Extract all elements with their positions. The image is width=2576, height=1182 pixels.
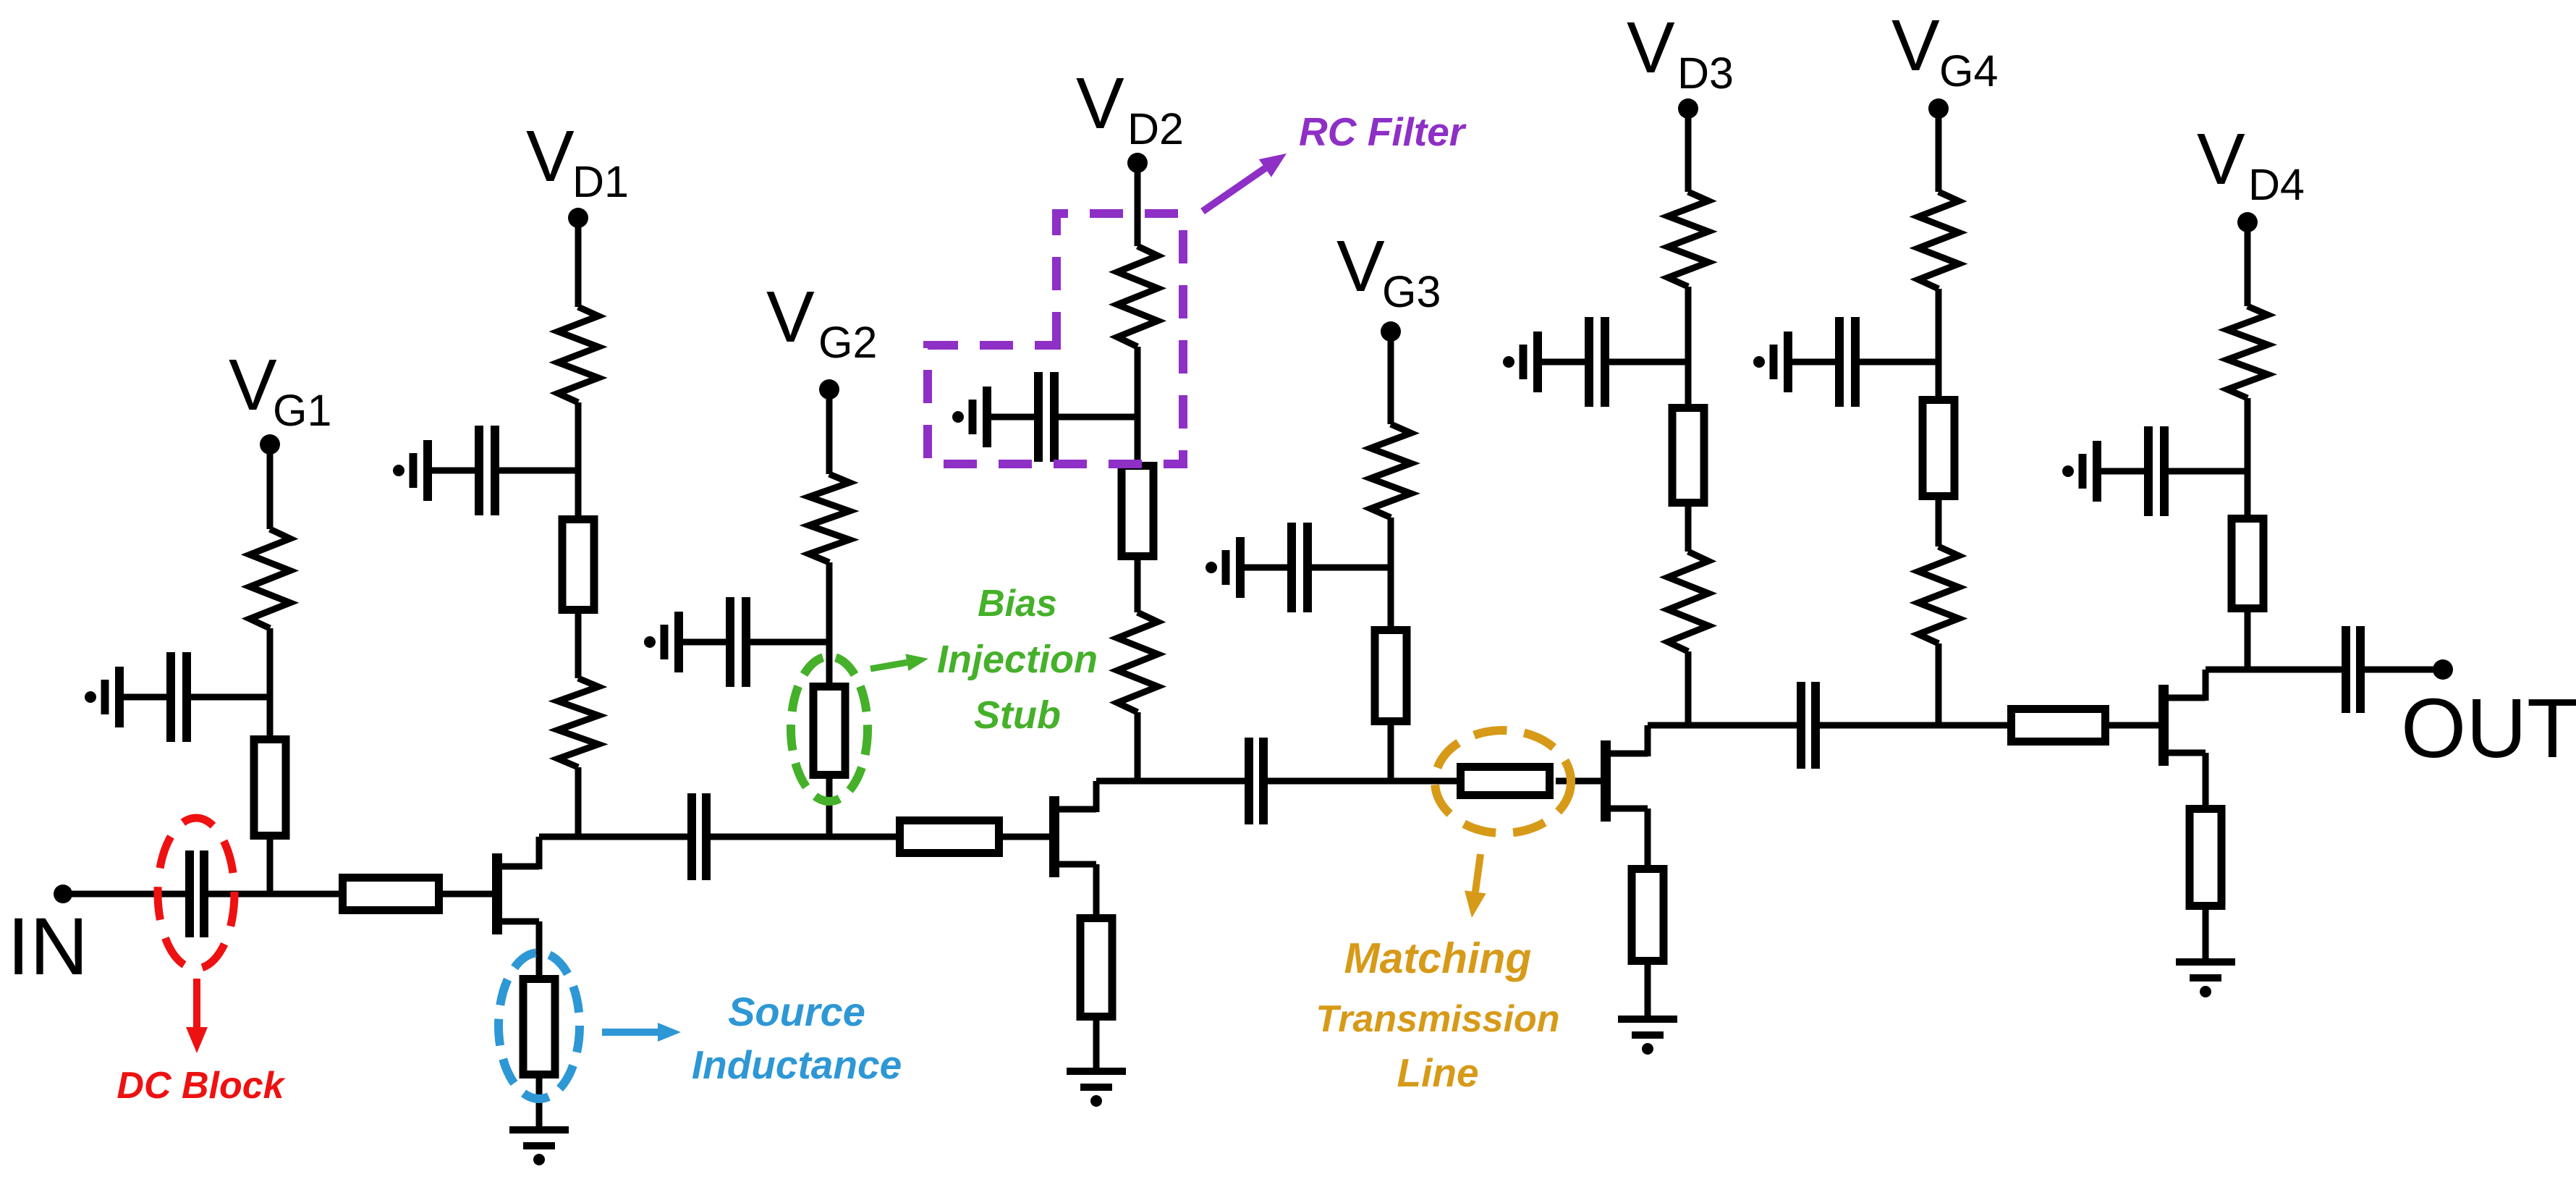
- stub TL VG4: [1923, 400, 1954, 497]
- resistor R1 VG1: [250, 529, 290, 628]
- wire stub to R7: [1135, 560, 1141, 612]
- svg-text:DC Block: DC Block: [116, 1065, 286, 1107]
- annotation purple dashed RC filter box: [928, 214, 1183, 464]
- svg-text:G3: G3: [1382, 267, 1441, 316]
- wire Q1 source down: [536, 921, 543, 975]
- capacitor C1 DC block: [190, 850, 204, 937]
- wire R8 to C8 junction: [1388, 518, 1394, 567]
- wire Q3 source down: [1645, 809, 1651, 865]
- wire stub to ground Q1: [536, 1078, 543, 1130]
- annotation red dashed ellipse DC block: [158, 818, 234, 968]
- wire stub to ground Q3: [1645, 965, 1651, 1019]
- annotation blue arrow: [602, 1023, 681, 1042]
- svg-text:Stub: Stub: [974, 693, 1061, 737]
- wire stub to R12: [1936, 500, 1942, 546]
- ground Q2 source: [1067, 1071, 1126, 1107]
- transistor Q3: [1606, 725, 1648, 822]
- transmission line TL3 matching: [1461, 767, 1550, 795]
- inductor source stub Q3: [1632, 869, 1664, 961]
- svg-text:OUT: OUT: [2401, 681, 2576, 775]
- capacitor C9 to ground VD3: [1503, 317, 1688, 407]
- svg-text:Bias: Bias: [978, 583, 1057, 625]
- wire Q2 source down: [1093, 864, 1100, 914]
- resistor R9 VD3 upper: [1668, 192, 1708, 287]
- wire R11 to C11 junction: [1936, 289, 1942, 362]
- node VG3 terminal: [1381, 321, 1401, 342]
- inductor source stub Q4: [2190, 809, 2221, 906]
- resistor R10 VD3 lower: [1668, 552, 1708, 651]
- svg-text:Transmission: Transmission: [1315, 998, 1559, 1040]
- annotation blue dashed ellipse source inductance: [499, 953, 580, 1099]
- capacitor C8 to ground VG3: [1206, 523, 1391, 612]
- wire node A to TL1: [270, 891, 339, 898]
- wire R12 to bus: [1936, 643, 1942, 725]
- wire C7 to VG3 node: [1263, 778, 1391, 785]
- wire VG4 dot to R11: [1936, 109, 1942, 192]
- ground Q4 source: [2176, 962, 2235, 997]
- transistor Q2: [1054, 781, 1096, 877]
- wire VD1 dot to R3: [575, 218, 582, 307]
- wire stub to ground Q4: [2203, 910, 2209, 962]
- stub TL VD1: [562, 520, 594, 610]
- wire Q2 drain bus: [1096, 778, 1249, 785]
- inductor source stub Q1: [523, 979, 555, 1075]
- wire C3 junction to stub: [575, 470, 582, 515]
- node OUT terminal: [2433, 659, 2453, 680]
- svg-text:Source: Source: [728, 989, 865, 1034]
- resistor R8 VG3: [1370, 424, 1411, 518]
- wire C8 junction to stub: [1388, 567, 1394, 626]
- wire stub to R4: [575, 614, 582, 678]
- wire R4 to drain bus: [575, 767, 582, 837]
- inductor source stub Q2: [1080, 919, 1112, 1017]
- node VD4 terminal: [2237, 212, 2258, 232]
- stub TL VG1: [254, 740, 286, 836]
- wire C11 junction to stub: [1936, 362, 1942, 396]
- svg-text:V: V: [1336, 226, 1385, 307]
- wire C2 junction to stub: [267, 697, 274, 735]
- svg-text:V: V: [1076, 63, 1124, 144]
- annotation purple arrow: [1203, 153, 1287, 211]
- annotation red arrow: [186, 979, 208, 1053]
- wire C10 to VG4 node: [1816, 722, 1939, 729]
- transmission line TL4: [2012, 709, 2106, 742]
- wire stub to R10: [1685, 507, 1692, 552]
- svg-text:G1: G1: [273, 386, 331, 435]
- capacitor C6 to ground VD2: [952, 372, 1137, 462]
- wire stub to bus: [1388, 725, 1394, 781]
- capacitor C5 to ground VG2: [644, 597, 829, 687]
- wire R10 to drain bus: [1685, 651, 1692, 725]
- wire stub to node A: [267, 840, 274, 894]
- wire TL1 to Q1 gate: [443, 891, 493, 898]
- wire stub to bus: [2245, 612, 2251, 670]
- wire IN to DC block: [63, 891, 190, 898]
- capacitor C12 to ground VD4: [2062, 426, 2247, 516]
- svg-text:RC Filter: RC Filter: [1299, 109, 1467, 154]
- wire R9 to C9 junction: [1685, 287, 1692, 362]
- wire Q4 drain bus: [2206, 667, 2346, 673]
- stub TL VD3: [1672, 408, 1704, 503]
- wire VG2 dot to R5: [826, 389, 833, 474]
- wire TL2 to Q2 gate: [1003, 834, 1050, 840]
- ground Q1 source: [509, 1130, 569, 1165]
- svg-text:V: V: [229, 345, 277, 426]
- wire C6 junction to stub: [1135, 417, 1141, 462]
- transistor Q4: [2164, 670, 2206, 766]
- annotation green arrow: [870, 654, 928, 671]
- annotation green dashed ellipse bias stub: [791, 657, 868, 801]
- transmission line TL2: [900, 821, 999, 853]
- svg-text:D1: D1: [572, 157, 629, 206]
- stub TL VD2: [1122, 466, 1153, 557]
- capacitor C13 output DC block: [2346, 626, 2360, 713]
- node VG1 terminal: [260, 434, 280, 455]
- svg-text:V: V: [526, 116, 575, 197]
- wire VG3 dot to R8: [1388, 332, 1394, 424]
- wire VD2 dot to R6: [1135, 163, 1141, 246]
- node VG2 terminal: [819, 379, 839, 400]
- svg-text:V: V: [2197, 119, 2245, 200]
- wire VG3 node to TL3: [1391, 778, 1460, 785]
- node VD1 terminal: [568, 208, 588, 228]
- wire R3 to C3 junction: [575, 402, 582, 470]
- node IN terminal: [54, 885, 72, 903]
- resistor R4 VD1 lower: [558, 678, 598, 767]
- annotation orange dashed ellipse matching TL: [1435, 730, 1571, 833]
- capacitor C7 coupling stage2-3: [1249, 738, 1263, 824]
- wire R5 to C5 junction: [826, 562, 833, 642]
- resistor R6 VD2 upper: [1117, 246, 1158, 347]
- capacitor C2 to ground VG1: [85, 652, 270, 742]
- wire C5 junction to stub: [826, 642, 833, 683]
- ground Q3 source: [1618, 1019, 1677, 1055]
- resistor R3 VD1 upper: [558, 307, 598, 402]
- wire Q3 drain bus: [1648, 722, 1800, 729]
- svg-text:Inductance: Inductance: [692, 1042, 902, 1087]
- wire C13 to OUT: [2360, 667, 2443, 673]
- wire Q1 drain bus: [539, 834, 692, 840]
- svg-text:IN: IN: [7, 901, 88, 992]
- wire Q4 source down: [2203, 753, 2209, 805]
- capacitor C4 coupling stage1-2: [692, 793, 706, 880]
- capacitor C11 to ground VG4: [1753, 317, 1939, 407]
- wire C12 junction to stub: [2245, 471, 2251, 515]
- svg-text:G4: G4: [1939, 46, 1998, 96]
- stub TL VG3: [1375, 630, 1407, 722]
- stub TL VD4: [2232, 519, 2263, 609]
- transmission line TL1: [343, 878, 439, 911]
- stub TL VG2 bias injection: [813, 687, 845, 775]
- annotation orange arrow: [1465, 854, 1486, 918]
- wire R6 to C6 junction: [1135, 347, 1141, 417]
- resistor R7 VD2 lower: [1117, 612, 1158, 712]
- svg-text:G2: G2: [818, 318, 877, 367]
- svg-text:Injection: Injection: [937, 638, 1098, 681]
- wire DC block to node A: [204, 891, 270, 898]
- wire TL4 to Q4 gate: [2109, 722, 2159, 729]
- wire R1 to C2 junction: [267, 628, 274, 697]
- wire VG1 dot to R1: [267, 444, 274, 529]
- svg-text:V: V: [766, 276, 815, 358]
- wire VD4 dot to R13: [2245, 222, 2251, 306]
- wire stub to ground Q2: [1093, 1021, 1100, 1071]
- wire VG4 node to TL4: [1939, 722, 2007, 729]
- wire VD3 dot to R9: [1685, 109, 1692, 192]
- node VD3 terminal: [1678, 98, 1698, 119]
- node VD2 terminal: [1127, 153, 1148, 173]
- wire TL3 to Q3 gate: [1556, 778, 1601, 785]
- svg-text:Line: Line: [1397, 1050, 1478, 1095]
- capacitor C3 to ground VD1: [393, 426, 578, 515]
- wire R7 to drain bus: [1135, 712, 1141, 781]
- svg-text:D3: D3: [1677, 48, 1734, 98]
- resistor R11 VG4 upper: [1918, 192, 1959, 289]
- wire R13 to C12 junction: [2245, 398, 2251, 471]
- svg-text:V: V: [1891, 5, 1940, 86]
- node VG4 terminal: [1928, 98, 1949, 119]
- svg-text:D2: D2: [1127, 104, 1184, 153]
- capacitor C10 coupling stage3-4: [1801, 682, 1816, 769]
- wire stub to bus: [826, 779, 833, 837]
- svg-text:D4: D4: [2248, 160, 2305, 209]
- wire C9 junction to stub: [1685, 362, 1692, 404]
- svg-text:V: V: [1627, 7, 1675, 88]
- transistor Q1: [497, 837, 539, 934]
- resistor R5 VG2: [809, 474, 850, 562]
- svg-text:Matching: Matching: [1344, 934, 1532, 982]
- wire VG2 node to TL2: [829, 834, 896, 840]
- resistor R13 VD4: [2227, 306, 2268, 398]
- resistor R12 VG4 lower: [1918, 546, 1959, 643]
- wire C4 to VG2 node: [706, 834, 829, 840]
